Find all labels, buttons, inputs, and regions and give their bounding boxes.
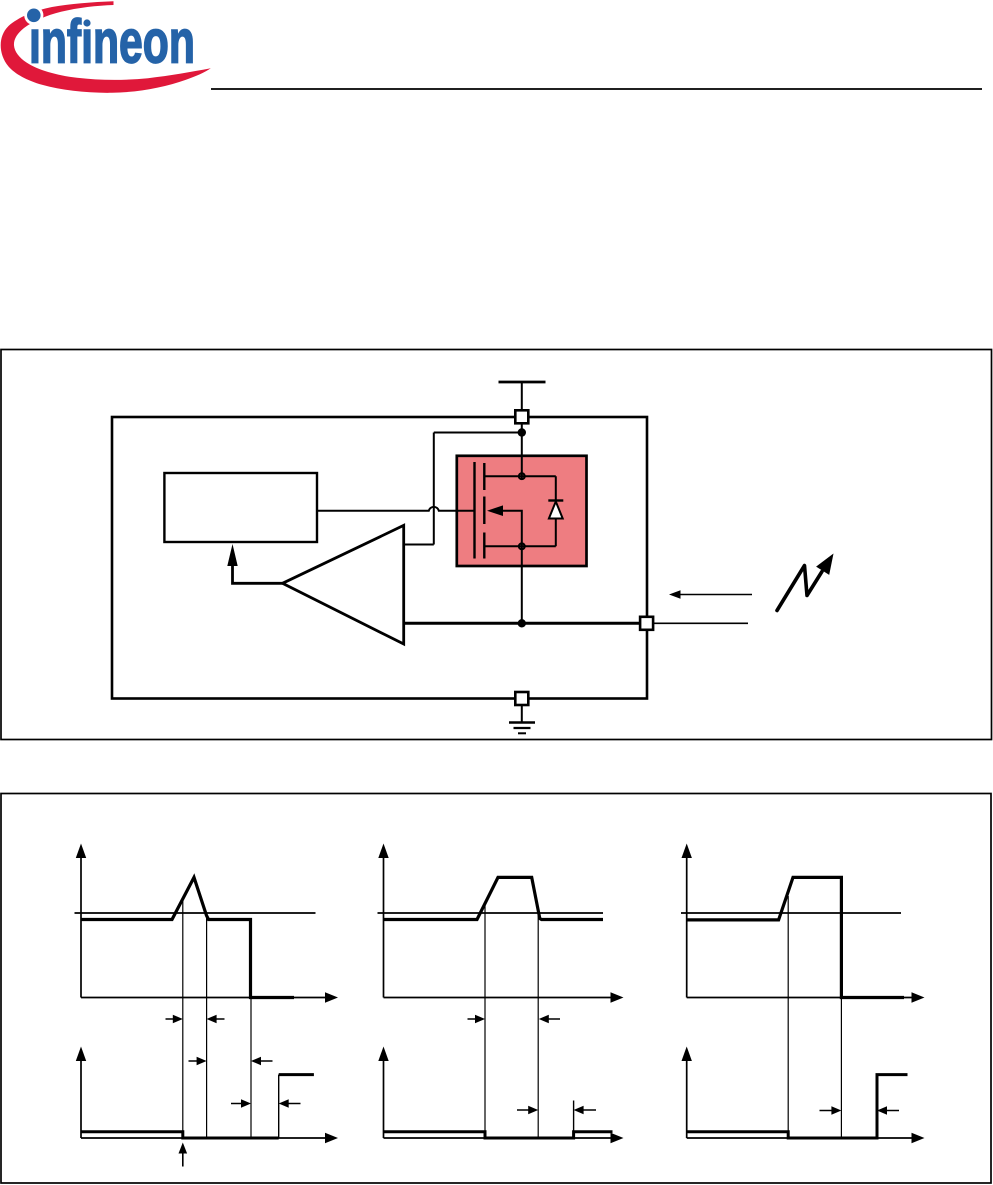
diagram 3 current axis (y) [682,844,692,998]
wire sense branch to comparator input [403,544,434,546]
wire sense branch vertical [433,433,435,545]
wire output rail (source to OUT pin) [404,622,646,625]
diagram 1 time axis (x) [81,992,338,1002]
svg-text:ınfıneon: ınfıneon [29,8,195,76]
diagram 2 marker line t3 [573,1101,575,1139]
diagram 1 threshold line [75,912,316,914]
diagram 1 status axis (y) [76,1047,86,1139]
diagram 2 marker line t2 [537,910,539,1138]
diagram 3 status trace with restart step [687,1075,908,1138]
wire supply bar to Vbb pin [521,382,523,411]
diagram 1 marker line t4 [278,1075,280,1138]
diagram 1 event arrow below axis [179,1143,188,1167]
diagram 2 dimension arrows row A [468,1015,561,1024]
pin OUT (right terminal square) [640,617,653,630]
diagram 2 current axis (y) [378,844,388,998]
diagram 2 status trace [384,1132,613,1138]
IC boundary box [112,417,647,699]
wire GND pin to ground symbol [521,705,523,723]
diagram 1 status step top [279,1073,314,1076]
transistor Q1 highlighted cell (red box) [457,456,587,566]
surge arrowhead [816,554,833,575]
diagram 1 dimension arrows row C [231,1099,301,1108]
transistor Q1 drain lead [484,475,556,477]
transistor Q1 channel dashes [483,463,485,490]
pin Vbb (top terminal square) [515,410,528,423]
diode D1 anode triangle [549,502,563,519]
diagram 3 status axis (y) [682,1047,692,1139]
diagram 1 current axis (y) [76,844,86,998]
diagram 3 dimension arrows row C [820,1106,900,1115]
diagram 3 status time axis (x) [687,1133,925,1143]
diagram 1 marker line t1 [182,899,184,1138]
transistor Q1 bulk arrow [487,505,503,516]
diagram 2 time axis (x) [384,992,624,1002]
diagram 1 marker line t2 [206,914,208,1138]
wire gate drive with crossover hump [317,507,475,511]
figure 1 frame (block diagram) [1,350,992,740]
diagram 3 marker line t1 [787,896,789,1138]
logo dot of second i [83,19,90,26]
diagram 2 current trace with trapezoid pulse [384,877,604,919]
wire Vbb pin to drain node [521,422,523,478]
logo white halo around dot [24,6,43,25]
logo blue dot of first i [27,9,41,23]
diagram 2 dimension arrows row C [517,1106,596,1115]
diagram 2 status axis (y) [378,1047,388,1139]
wire MOSFET source down to output rail [521,546,523,623]
diagram 1 dimension arrows row B [189,1057,273,1066]
logo red swoosh [1,1,211,93]
wire drain node to sense branch [434,432,522,434]
ground symbol [509,723,535,734]
transistor Q1 drain terminal circle [519,473,525,479]
diagram 2 threshold line [378,912,604,914]
diagram 3 marker line t2 [840,998,842,1139]
control block U1 [164,473,317,542]
transistor Q1 gate bar [473,462,475,559]
diagram 3 current trace latched off [687,877,904,997]
node drain junction dot [518,428,526,436]
figure 2 frame (timing diagrams) [1,794,991,1184]
Infineon logo [1,1,211,93]
diagram 3 threshold line [681,912,901,914]
transistor Q1 source terminal circle [519,543,525,549]
supply rail bar (Vbb) [499,381,546,384]
diagram 1 marker line t3 [250,920,252,1139]
pin GND (bottom terminal square) [515,692,528,705]
header rule [211,88,982,90]
diagram 2 status time axis (x) [384,1133,624,1143]
wire comparator output to control block [233,562,283,583]
op-amp comparator U2 [283,525,404,644]
node source junction dot [518,619,526,627]
transistor Q1 source lead [484,545,556,547]
transistor Q1 bulk connection wire [502,511,522,547]
surge transient zigzag symbol [777,566,822,611]
diagram 2 marker line t1 [484,904,486,1138]
wire OUT pin external lead [653,622,748,624]
diagram 1 status trace [81,1132,279,1138]
diagram 1 current trace with spike [81,877,294,997]
arrow external pointing into OUT pin [679,594,752,596]
diagram 1 status time axis (x) [81,1133,338,1143]
arrow comparator output into block [227,544,237,566]
diode D1 body diode branch wire [555,476,557,546]
diode D1 cathode bar [548,499,563,501]
diagram 1 dimension arrows row A [166,1015,225,1024]
diagram 3 time axis (x) [687,992,925,1002]
